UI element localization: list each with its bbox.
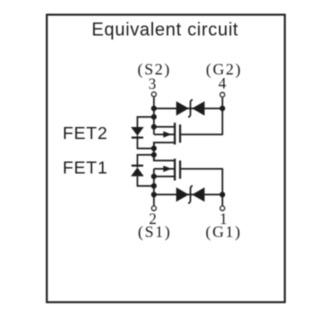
wire common drain vertical [153, 143, 155, 161]
junction FET2 source node [151, 124, 157, 130]
wire body diode FET1 cathode branch [137, 155, 154, 168]
wire G2 vertical [221, 98, 223, 136]
label FET2 [63, 123, 108, 143]
wire G1 vertical [221, 168, 223, 205]
label (G2) [206, 62, 242, 79]
zener diode pair D2 (between S2 and G2) [176, 100, 204, 118]
wire body diode FET2 cathode branch [137, 136, 154, 149]
terminal 4 (G2) open circle [220, 93, 224, 97]
junction FET1 source node [151, 174, 157, 180]
svg-text:4: 4 [218, 76, 226, 93]
label (G1) [205, 224, 241, 241]
FET1 channel bar [174, 159, 176, 181]
junction common drain / body diode FET2 cathode [151, 146, 157, 152]
terminal 1 (G1) open circle [220, 206, 224, 210]
terminal 2 (S1) open circle [152, 206, 156, 210]
FET1 body wire with arrow [154, 168, 175, 170]
frame border [47, 15, 285, 303]
pin number 3 [148, 76, 156, 93]
FET2 channel bar [174, 123, 176, 145]
svg-text:(G1): (G1) [205, 224, 241, 241]
junction G2/zener [220, 106, 226, 112]
MOSFET FET2 (upper, source top / drain bottom) [154, 123, 223, 149]
pin number 1 [220, 211, 228, 228]
label FET1 [63, 158, 108, 178]
wire S2 vertical (terminal 3 down to FET2 source) [153, 97, 155, 134]
junction S2/body-diode-D2 [151, 114, 157, 120]
junction S2/zener [151, 106, 157, 112]
wire S2-G2 zener branch [154, 107, 223, 109]
svg-text:FET1: FET1 [63, 158, 108, 178]
FET2 body wire with arrow [154, 133, 175, 135]
terminal 3 (S2) open circle [152, 92, 156, 96]
FET2 drain wire [154, 143, 175, 149]
pin number 2 [149, 211, 157, 228]
junction common drain / body diode FET1 cathode [151, 152, 157, 158]
svg-text:(S1): (S1) [138, 224, 172, 241]
wire body diode FET1 anode branch [137, 176, 154, 186]
body diode of FET2 [131, 127, 144, 138]
svg-text:3: 3 [148, 76, 156, 93]
wire body diode FET2 anode branch [137, 117, 154, 127]
FET1 source wire [154, 175, 175, 177]
MOSFET FET1 (lower, drain top / source bottom) [154, 155, 223, 181]
label (S2) [138, 62, 172, 79]
FET1 gate wire to G1 [181, 168, 222, 170]
junction G1/zener [220, 192, 226, 198]
junction S1/zener [151, 192, 157, 198]
FET2 gate bar [179, 125, 181, 143]
wire S1 vertical (FET1 source down to terminal 2) [153, 176, 155, 205]
FET1 drain wire [154, 155, 175, 161]
svg-text:Equivalent circuit: Equivalent circuit [92, 20, 239, 40]
wire S1-G1 zener branch [154, 194, 223, 196]
junction S1/body-diode-D1 [151, 183, 157, 189]
label (S1) [138, 224, 172, 241]
title: Equivalent circuit [92, 20, 239, 40]
svg-text:FET2: FET2 [63, 123, 108, 143]
FET2 source wire [154, 126, 175, 128]
FET1 body vertical tie [153, 169, 155, 177]
FET2 gate wire to G2 [181, 133, 222, 135]
FET1 gate bar [179, 161, 181, 179]
zener diode pair D1 (between S1 and G1) [176, 186, 204, 204]
pin number 4 [218, 76, 226, 93]
body diode of FET1 [131, 166, 144, 177]
